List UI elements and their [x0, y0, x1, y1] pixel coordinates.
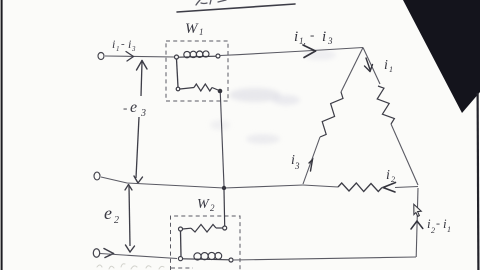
i2-i1 arrowhead up — [411, 221, 423, 229]
svg-text:-: - — [310, 27, 314, 42]
W1 node right — [216, 54, 220, 58]
label W2 — [197, 197, 215, 213]
svg-text:1: 1 — [447, 225, 451, 234]
label i1-i3 top right — [294, 27, 333, 46]
svg-text:W: W — [197, 197, 210, 212]
-e3 arrow line lower part — [136, 117, 139, 178]
middle wire — [101, 177, 303, 188]
W2 current coil — [183, 252, 230, 260]
ink bleed-through smudges — [210, 50, 336, 144]
wattmeter W1 dashed box — [166, 41, 228, 101]
W1 voltage branch vertical wire — [177, 59, 179, 87]
svg-text:3: 3 — [140, 108, 146, 119]
i1 direction arrow — [365, 58, 373, 72]
svg-text:-: - — [436, 216, 440, 230]
delta bottom left wire — [303, 185, 338, 187]
svg-text:i: i — [112, 37, 115, 51]
svg-text:W: W — [185, 21, 199, 37]
label i2-i1 — [427, 216, 451, 235]
-e3 arrow line upper part — [141, 62, 142, 96]
svg-text:i: i — [294, 29, 298, 45]
bottom-left arrow — [104, 249, 114, 258]
W1 resistor right node (junction dot) — [218, 89, 223, 94]
wire from middle junction down to W2 — [223, 190, 226, 226]
label -e3 — [123, 99, 146, 119]
top wire left segment — [105, 56, 175, 57]
delta left side lower wire — [303, 137, 320, 184]
title text fragment (cut off) — [196, 0, 226, 5]
svg-text:-: - — [121, 38, 125, 50]
right page edge — [477, 93, 480, 270]
svg-text:e: e — [130, 99, 137, 116]
top wire right segment — [220, 48, 363, 56]
big arrow on top wire — [303, 45, 316, 58]
svg-text:i: i — [384, 58, 388, 73]
terminal 0 middle — [94, 172, 100, 180]
right vertical wire — [416, 188, 418, 257]
middle junction dot — [222, 186, 226, 190]
terminal 0 top — [98, 53, 104, 60]
W1 node left — [175, 55, 179, 59]
svg-text:1: 1 — [116, 45, 120, 53]
label i3 — [291, 153, 300, 171]
label i1 right — [384, 58, 393, 74]
wire from W1 node down to middle junction — [220, 93, 224, 186]
label W1 — [185, 21, 204, 37]
left page edge — [1, 0, 3, 270]
W1 voltage coil resistor — [194, 84, 212, 91]
W2 voltage coil resistor — [191, 225, 216, 233]
svg-text:i: i — [322, 29, 326, 45]
svg-text:3: 3 — [294, 161, 300, 171]
delta left resistor — [320, 92, 343, 137]
wattmeter W2 dashed box — [171, 216, 241, 270]
svg-text:e: e — [104, 203, 112, 223]
mouse cursor — [414, 204, 422, 216]
e2 line — [129, 186, 130, 246]
delta right resistor — [377, 86, 394, 124]
svg-text:3: 3 — [327, 36, 333, 46]
W2 voltage resistor left node — [179, 227, 183, 231]
delta bottom resistor — [338, 183, 382, 192]
bottom wire left segment — [100, 254, 177, 259]
W1 voltage branch wire to resistor — [180, 88, 194, 90]
W2 voltage resistor right node — [223, 226, 227, 230]
W2 current coil right node — [229, 258, 233, 262]
i2 arrowhead pointing left — [383, 183, 396, 193]
svg-text:2: 2 — [431, 226, 435, 235]
faint pencil scribbles bottom left — [97, 264, 164, 269]
delta bottom right wire — [395, 187, 418, 188]
e2 arrowhead up — [125, 185, 132, 191]
photo corner black triangle — [403, 0, 480, 113]
label i2 — [386, 168, 395, 184]
delta right side lower wire — [391, 124, 418, 185]
W2 bottom-left node — [178, 257, 182, 261]
W1 current coil — [179, 51, 217, 58]
e2 arrowhead down — [126, 245, 135, 252]
svg-text:1: 1 — [389, 65, 393, 74]
svg-text:2: 2 — [210, 203, 215, 213]
svg-text:1: 1 — [199, 27, 204, 37]
svg-text:-: - — [123, 100, 127, 115]
delta left side upper wire — [341, 48, 363, 93]
label e2 — [104, 203, 119, 226]
terminal 0 bottom — [93, 249, 99, 257]
svg-text:1,: 1, — [299, 36, 306, 46]
svg-text:i: i — [386, 168, 390, 183]
-e3 arrowhead up — [137, 61, 148, 71]
svg-text:2: 2 — [114, 215, 119, 226]
W2 left vertical wire — [180, 231, 183, 256]
label i1-i3 top left — [112, 37, 136, 53]
svg-text:i: i — [128, 37, 131, 51]
bottom wire right segment — [233, 257, 416, 260]
i3 tick mark — [309, 160, 313, 172]
svg-text:2: 2 — [391, 175, 395, 184]
W1 voltage branch node — [176, 87, 180, 91]
svg-text:3: 3 — [131, 45, 136, 53]
-e3 arrowhead down — [134, 176, 143, 183]
delta right side upper wire — [363, 48, 380, 85]
arrow on top-left wire — [126, 52, 134, 62]
title underline — [177, 4, 295, 12]
